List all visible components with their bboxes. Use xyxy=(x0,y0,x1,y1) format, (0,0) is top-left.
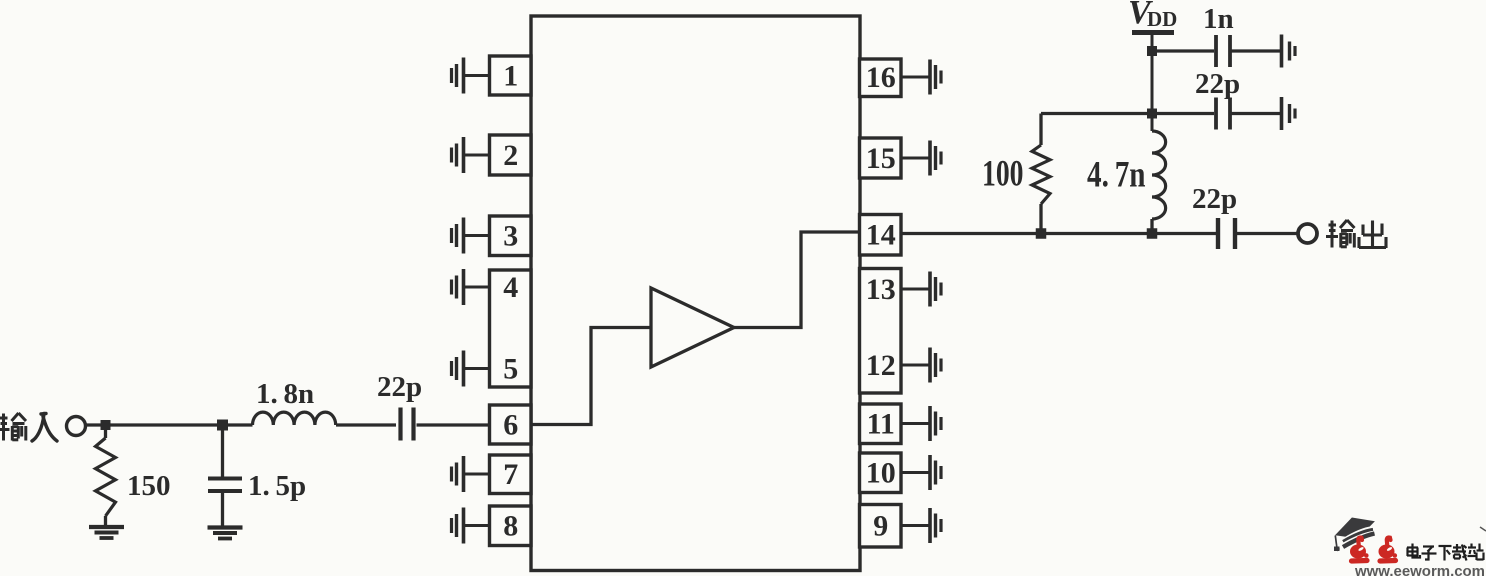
svg-text:2: 2 xyxy=(503,139,518,172)
svg-text:3: 3 xyxy=(503,220,518,253)
svg-text:22p: 22p xyxy=(377,371,422,403)
svg-text:6: 6 xyxy=(503,409,518,442)
svg-text:14: 14 xyxy=(866,219,896,252)
svg-text:5: 5 xyxy=(503,353,518,386)
svg-text:DD: DD xyxy=(1147,7,1177,31)
svg-text:16: 16 xyxy=(866,61,896,94)
svg-text:4. 7n: 4. 7n xyxy=(1087,155,1146,196)
svg-text:1n: 1n xyxy=(1203,3,1234,35)
svg-text:8: 8 xyxy=(503,510,518,543)
svg-text:1. 8n: 1. 8n xyxy=(256,378,314,410)
svg-text:12: 12 xyxy=(866,349,896,382)
svg-text:15: 15 xyxy=(866,142,896,175)
svg-text:www.eeworm.com: www.eeworm.com xyxy=(1354,563,1485,576)
svg-text:10: 10 xyxy=(866,457,896,490)
svg-text:7: 7 xyxy=(503,458,518,491)
svg-text:9: 9 xyxy=(873,510,888,543)
svg-text:11: 11 xyxy=(867,408,895,441)
svg-text:100: 100 xyxy=(982,154,1024,195)
svg-text:4: 4 xyxy=(503,271,518,304)
svg-text:1: 1 xyxy=(503,60,518,93)
svg-text:13: 13 xyxy=(866,273,896,306)
svg-text:1. 5p: 1. 5p xyxy=(248,470,306,502)
svg-text:22p: 22p xyxy=(1195,68,1240,100)
svg-text:150: 150 xyxy=(127,470,171,502)
svg-text:22p: 22p xyxy=(1192,183,1237,215)
